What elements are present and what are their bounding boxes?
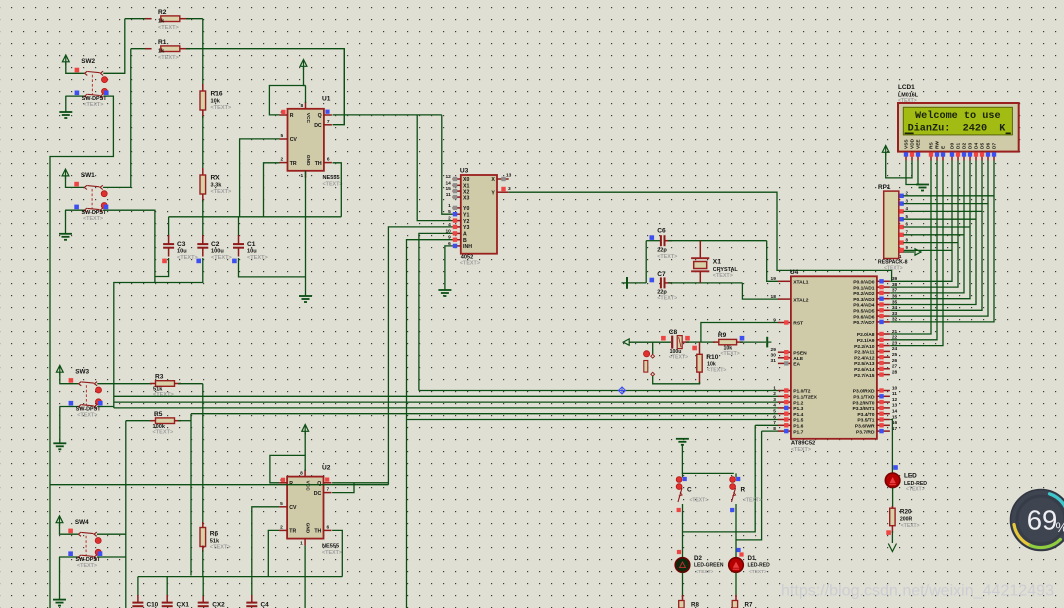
- svg-text:P3.0/RXD: P3.0/RXD: [853, 389, 875, 395]
- power terminal: [766, 337, 768, 348]
- svg-text:GND: GND: [305, 155, 311, 166]
- op-amp U1 (NE555 timer): [288, 109, 324, 171]
- svg-text:SW2: SW2: [81, 58, 95, 65]
- svg-text:C3: C3: [177, 241, 186, 248]
- node R1-DC: [333, 49, 345, 125]
- svg-text:Y3: Y3: [463, 225, 469, 231]
- U3 pin 4 Y3: [452, 226, 460, 228]
- svg-text:U2: U2: [322, 465, 331, 472]
- svg-text:R10: R10: [706, 354, 718, 361]
- svg-text:XTAL1: XTAL1: [793, 280, 808, 286]
- svg-text:LED: LED: [904, 473, 917, 480]
- U4 pin 27 P2.6/A14: [877, 368, 890, 370]
- svg-text:25: 25: [892, 352, 898, 358]
- svg-text:P1.7: P1.7: [793, 429, 803, 435]
- wire: [333, 114, 442, 116]
- RP1 pin 9: [899, 249, 904, 251]
- wire: [903, 226, 970, 228]
- U3 pin 5 Y1: [452, 213, 460, 215]
- svg-text:1k: 1k: [158, 19, 165, 25]
- svg-text:P0.4/AD4: P0.4/AD4: [853, 303, 874, 309]
- svg-text:P1.5: P1.5: [793, 418, 803, 424]
- U3 pin 14 X1: [452, 184, 460, 186]
- U4 pin 8 P1.7: [778, 430, 791, 432]
- svg-text:DC: DC: [314, 491, 322, 497]
- svg-text:INH: INH: [463, 244, 472, 250]
- resistor R20: [891, 506, 893, 510]
- svg-text:3: 3: [508, 186, 511, 192]
- svg-text:P0.0/AD0: P0.0/AD0: [853, 280, 874, 286]
- svg-text:1: 1: [773, 385, 776, 391]
- svg-text:<TEXT>: <TEXT>: [77, 563, 97, 569]
- wire D1: [890, 161, 958, 288]
- wire LCD ctl 1: [890, 161, 937, 340]
- svg-text:<TEXT>: <TEXT>: [906, 487, 925, 493]
- op-amp U2 (NE555 timer): [287, 477, 323, 539]
- svg-text:6: 6: [327, 524, 330, 530]
- resistor R7: [735, 595, 737, 601]
- power VDD: [882, 146, 889, 156]
- U4 pin 11 P3.1/TXD: [877, 395, 890, 397]
- svg-text:C2: C2: [211, 241, 220, 248]
- wire: [97, 533, 126, 535]
- svg-text:P3.4/T0: P3.4/T0: [857, 412, 874, 418]
- svg-text:30: 30: [771, 353, 777, 359]
- svg-text:VCC: VCC: [305, 113, 311, 124]
- svg-text:D2: D2: [962, 143, 968, 149]
- ground: [59, 557, 61, 600]
- wire: [114, 258, 203, 408]
- wire: [305, 171, 307, 296]
- svg-text:11: 11: [446, 192, 451, 198]
- svg-text:R: R: [741, 487, 746, 494]
- wire: [103, 49, 131, 188]
- wire: [735, 504, 737, 558]
- svg-text:P1.6: P1.6: [793, 424, 803, 430]
- svg-text:P0.2/AD2: P0.2/AD2: [853, 291, 874, 297]
- analog mux U3 (4052): [461, 175, 497, 254]
- capacitor C1: [238, 217, 240, 236]
- svg-text:NE555: NE555: [323, 175, 340, 181]
- svg-text:5: 5: [773, 409, 776, 415]
- svg-text:10: 10: [892, 385, 898, 391]
- wire: [304, 470, 306, 473]
- wire: [509, 192, 892, 281]
- svg-text:X3: X3: [463, 195, 469, 201]
- svg-text:P1.1/T2EX: P1.1/T2EX: [793, 395, 817, 401]
- svg-text:Y1: Y1: [463, 212, 469, 218]
- wire: [97, 406, 114, 408]
- U4 pin 1 P1.0/T2: [778, 390, 791, 392]
- svg-text:12: 12: [445, 174, 451, 180]
- svg-text:P2.2/A10: P2.2/A10: [854, 344, 875, 350]
- svg-text:P1.0/T2: P1.0/T2: [793, 389, 810, 395]
- svg-text:<TEXT>: <TEXT>: [791, 447, 811, 453]
- U4 pin 21 P2.0/A8: [877, 333, 890, 335]
- svg-text:10u: 10u: [177, 249, 187, 255]
- svg-text:C6: C6: [657, 228, 666, 235]
- svg-text:D7: D7: [992, 143, 998, 149]
- U4 pin 25 P2.4/A12: [877, 356, 890, 358]
- svg-text:D3: D3: [968, 143, 974, 149]
- svg-text:13: 13: [506, 173, 512, 179]
- svg-text:D5: D5: [980, 143, 986, 149]
- wire P1.7: [762, 430, 778, 432]
- svg-text:U1: U1: [322, 96, 331, 103]
- capacitor CX1: [166, 577, 168, 596]
- U4 pin 12 P3.2/INT0: [877, 401, 890, 403]
- wire P1.2: [114, 401, 778, 403]
- svg-text:<TEXT>: <TEXT>: [901, 523, 920, 529]
- wire D7: [890, 161, 994, 322]
- wire: [917, 161, 919, 185]
- svg-text:3: 3: [773, 397, 776, 403]
- svg-text:D0: D0: [950, 143, 956, 149]
- svg-text:P0.6/AD6: P0.6/AD6: [853, 314, 874, 320]
- svg-text:69: 69: [1027, 505, 1058, 536]
- U4 pin 16 P3.6/WR: [877, 424, 890, 426]
- U4 pin 14 P3.4/T0: [877, 413, 890, 415]
- svg-text:4052: 4052: [461, 254, 473, 260]
- svg-text:Q: Q: [317, 481, 321, 487]
- wire: [903, 210, 982, 212]
- svg-text:R20: R20: [900, 509, 912, 516]
- RP1 pin 4: [899, 210, 904, 212]
- RP1 pin 3: [899, 203, 904, 205]
- svg-text:1: 1: [300, 541, 303, 547]
- capacitor C8: [661, 336, 666, 341]
- switch SW4: [56, 516, 63, 526]
- svg-text:<TEXT>: <TEXT>: [657, 295, 677, 301]
- wire P1.0: [419, 390, 778, 392]
- wire: [305, 86, 307, 104]
- svg-text:RS: RS: [929, 142, 935, 149]
- svg-text:SW3: SW3: [75, 368, 89, 375]
- svg-text:12: 12: [892, 397, 898, 403]
- wire: [97, 421, 126, 557]
- svg-text:C8: C8: [669, 329, 678, 336]
- wire: [407, 240, 453, 608]
- svg-text:<TEXT>: <TEXT>: [153, 392, 175, 398]
- svg-text:CX1: CX1: [177, 602, 190, 608]
- svg-text:R7: R7: [745, 602, 753, 608]
- svg-text:8: 8: [301, 103, 304, 109]
- node junction: [618, 387, 625, 394]
- svg-text:R: R: [290, 113, 294, 119]
- svg-text:C: C: [687, 487, 692, 494]
- wire D0: [890, 161, 952, 282]
- resistor RX: [202, 168, 204, 176]
- svg-text:7: 7: [773, 420, 776, 426]
- svg-text:200R: 200R: [900, 517, 913, 523]
- button: [652, 342, 654, 354]
- LED D? (LED-RED): [893, 465, 898, 470]
- svg-text:P2.7/A15: P2.7/A15: [854, 373, 875, 379]
- wire: [332, 482, 388, 484]
- wire: [653, 376, 700, 384]
- U4 pin 18 XTAL2: [778, 298, 791, 300]
- svg-text:VEE: VEE: [916, 139, 922, 149]
- resistor R6: [202, 384, 204, 524]
- svg-text:Welcome to use: Welcome to use: [915, 110, 1001, 122]
- svg-text:https://blog.csdn.net/weixin_4: https://blog.csdn.net/weixin_44212493: [781, 583, 1054, 600]
- microcontroller U4 (AT89C52): [791, 276, 877, 439]
- wire: [903, 195, 994, 197]
- svg-text:R1: R1: [158, 39, 167, 46]
- svg-text:P1.4: P1.4: [793, 412, 803, 418]
- U4 pin 4 P1.3: [778, 407, 791, 409]
- svg-text:<TEXT>: <TEXT>: [898, 98, 917, 104]
- svg-text:<TEXT>: <TEXT>: [210, 545, 232, 551]
- switch R: [735, 473, 737, 477]
- svg-text:<TEXT>: <TEXT>: [884, 265, 903, 271]
- wire: [202, 19, 204, 86]
- svg-text:Y0: Y0: [463, 206, 469, 212]
- svg-text:<TEXT>: <TEXT>: [211, 105, 233, 111]
- svg-text:X1: X1: [713, 259, 721, 266]
- U3 pin 6 INH: [452, 245, 460, 247]
- wire: [240, 139, 280, 217]
- svg-text:<TEXT>: <TEXT>: [158, 55, 180, 61]
- U4 pin 26 P2.5/A13: [877, 362, 890, 364]
- wire: [252, 507, 279, 577]
- RP1 pin 2: [899, 195, 904, 197]
- svg-text:P3.2/INT0: P3.2/INT0: [852, 400, 874, 406]
- RP1 pin 6: [899, 226, 904, 228]
- U3 pin 12 X0: [452, 178, 460, 180]
- U4 pin 36 P0.3/AD3: [877, 298, 890, 300]
- svg-text:R9: R9: [718, 332, 727, 339]
- svg-text:15: 15: [445, 186, 451, 192]
- svg-text:4: 4: [773, 403, 776, 409]
- svg-text:<TEXT>: <TEXT>: [707, 368, 726, 374]
- svg-text:<TEXT>: <TEXT>: [721, 351, 740, 357]
- wire: [890, 420, 892, 474]
- svg-text:PSEN: PSEN: [793, 350, 807, 356]
- wire: [50, 484, 388, 486]
- U4 pin 32 P0.7/AD7: [877, 321, 890, 323]
- svg-text:A: A: [463, 232, 467, 238]
- wire: [682, 504, 684, 558]
- svg-text:22p: 22p: [657, 248, 667, 254]
- svg-text:EA: EA: [793, 362, 800, 368]
- capacitor C10: [137, 577, 139, 596]
- wire: [735, 572, 737, 597]
- svg-text:R: R: [289, 481, 293, 487]
- wire: [138, 576, 342, 578]
- svg-text:CX2: CX2: [212, 602, 225, 608]
- resistor R1: [131, 48, 152, 50]
- wire XTAL1: [767, 241, 778, 282]
- wire P1.5: [407, 419, 779, 421]
- svg-text:DC: DC: [314, 123, 322, 129]
- ground: [438, 290, 451, 296]
- resistor R16: [202, 84, 204, 92]
- wire: [332, 483, 354, 493]
- svg-text:<TEXT>: <TEXT>: [153, 429, 175, 435]
- resistor R3: [150, 383, 157, 385]
- svg-text:<TEXT>: <TEXT>: [323, 182, 343, 188]
- power VCC U2: [302, 425, 309, 435]
- capacitor C2: [202, 235, 204, 244]
- wire P1.1: [114, 395, 778, 397]
- svg-text:D4: D4: [974, 143, 980, 149]
- wire: [333, 163, 342, 217]
- svg-text:<TEXT>: <TEXT>: [77, 412, 97, 418]
- wire D5: [890, 161, 982, 311]
- svg-text:27: 27: [892, 364, 898, 370]
- U4 pin 15 P3.5/T1: [877, 419, 890, 421]
- U4 pin 22 P2.1/A9: [877, 339, 890, 341]
- resistor R5: [126, 420, 152, 422]
- svg-text:X0: X0: [463, 177, 469, 183]
- svg-text:P0.5/AD5: P0.5/AD5: [853, 309, 874, 315]
- ground arrow: [891, 531, 893, 543]
- wire: [388, 227, 452, 485]
- wire D4: [890, 161, 976, 305]
- switch SW2: [62, 55, 69, 65]
- wire node A: [169, 216, 342, 218]
- resistor R2: [125, 18, 152, 20]
- U4 pin 24 P2.3/A11: [877, 350, 890, 352]
- wire: [268, 530, 279, 576]
- svg-text:RST: RST: [793, 321, 803, 327]
- wire: [332, 530, 342, 576]
- svg-text:P1.3: P1.3: [793, 406, 803, 412]
- svg-text:P2.5/A13: P2.5/A13: [854, 361, 875, 367]
- capacitor C3: [168, 217, 170, 236]
- svg-text:<TEXT>: <TEXT>: [247, 255, 269, 261]
- svg-text:7: 7: [327, 487, 330, 493]
- svg-text:CRYSTAL: CRYSTAL: [713, 267, 739, 273]
- RP1 pin 1 common: [899, 251, 904, 253]
- wire D6: [890, 161, 988, 317]
- wire P1.6: [755, 424, 778, 426]
- svg-text:<TEXT>: <TEXT>: [460, 261, 480, 267]
- switch SW1: [62, 169, 69, 179]
- svg-text:CV: CV: [289, 505, 297, 511]
- svg-text:<TEXT>: <TEXT>: [657, 254, 677, 260]
- U4 pin 19 XTAL1: [778, 280, 791, 282]
- wire: [442, 115, 453, 214]
- wire: [103, 19, 125, 74]
- svg-text:3.3k: 3.3k: [211, 183, 223, 189]
- ground: [59, 407, 61, 444]
- wire P1.4: [191, 413, 778, 415]
- U4 pin 29 PSEN: [778, 351, 791, 353]
- capacitor C7: [650, 278, 655, 283]
- svg-text:SW1: SW1: [81, 172, 95, 179]
- svg-text:8: 8: [300, 471, 303, 477]
- svg-text:28: 28: [892, 369, 898, 375]
- U4 pin 37 P0.2/AD2: [877, 292, 890, 294]
- U4 pin 34 P0.5/AD5: [877, 309, 890, 311]
- U4 pin 17 P3.7/RD: [877, 430, 890, 432]
- U4 pin 13 P3.3/INT1: [877, 407, 890, 409]
- RP1 pin 5: [899, 218, 904, 220]
- svg-text:CV: CV: [290, 137, 298, 143]
- U4 pin 7 P1.6: [778, 424, 791, 426]
- svg-text:B: B: [463, 238, 467, 244]
- svg-text:10k: 10k: [211, 99, 221, 105]
- power terminal: [622, 282, 647, 284]
- svg-text:RW: RW: [935, 141, 941, 149]
- ground: [65, 96, 67, 112]
- wire: [239, 258, 306, 277]
- svg-text:X: X: [491, 177, 495, 183]
- ground: [65, 210, 67, 234]
- svg-text:C10: C10: [147, 602, 159, 608]
- svg-text:R8: R8: [691, 602, 699, 608]
- svg-text:1k: 1k: [158, 49, 165, 55]
- svg-text:<TEXT>: <TEXT>: [177, 255, 199, 261]
- svg-text:1: 1: [301, 173, 304, 179]
- svg-text:100u: 100u: [211, 249, 224, 255]
- svg-text:<TEXT>: <TEXT>: [211, 255, 233, 261]
- svg-text:14: 14: [892, 409, 898, 415]
- svg-text:D2: D2: [694, 555, 702, 562]
- switch C: [682, 473, 684, 477]
- LED D2 (LED-GREEN): [677, 550, 681, 554]
- svg-text:RX: RX: [211, 175, 221, 182]
- wire: [682, 572, 684, 597]
- wire P1.3: [114, 407, 778, 409]
- wire: [419, 233, 453, 390]
- svg-text:P3.1/TXD: P3.1/TXD: [853, 395, 875, 401]
- U4 pin 38 P0.1/AD1: [877, 286, 890, 288]
- wire D2: [890, 161, 964, 293]
- U3 pin 1 Y0: [452, 207, 460, 209]
- svg-text:U3: U3: [460, 168, 469, 175]
- svg-text:LED-GREEN: LED-GREEN: [694, 562, 724, 568]
- svg-text:11: 11: [892, 391, 897, 397]
- svg-text:P0.1/AD1: P0.1/AD1: [853, 285, 874, 291]
- U3 pin 11 X3: [452, 196, 460, 198]
- svg-text:SW4: SW4: [75, 519, 89, 526]
- wire: [202, 116, 204, 170]
- wire: [903, 234, 964, 236]
- svg-text:R5: R5: [154, 411, 163, 418]
- svg-text:LED-RED: LED-RED: [748, 562, 771, 568]
- svg-text:5: 5: [280, 501, 283, 507]
- svg-text:13: 13: [892, 403, 898, 409]
- U4 pin 6 P1.5: [778, 419, 791, 421]
- wire LCD ctl 2: [890, 161, 943, 346]
- U4 pin 33 P0.6/AD6: [877, 315, 890, 317]
- svg-text:VSS: VSS: [904, 139, 910, 149]
- wire: [202, 200, 204, 244]
- U4 pin 9 RST: [778, 322, 791, 324]
- svg-text:<TEXT>: <TEXT>: [83, 216, 103, 222]
- ground: [299, 296, 312, 302]
- svg-text:R16: R16: [211, 91, 223, 98]
- svg-text:6: 6: [773, 414, 776, 420]
- svg-text:P3.5/T1: P3.5/T1: [857, 418, 874, 424]
- svg-text:C1: C1: [247, 241, 256, 248]
- svg-text:D1: D1: [748, 555, 756, 562]
- svg-text:P0.7/AD7: P0.7/AD7: [853, 320, 874, 326]
- svg-text:GND: GND: [305, 523, 311, 534]
- resistor pack RP1 (RESPACK-8): [884, 191, 899, 258]
- svg-text:5: 5: [281, 133, 284, 139]
- svg-text:24: 24: [892, 346, 898, 352]
- U3 pin 3 Y: [497, 191, 509, 193]
- wire: [304, 546, 306, 608]
- svg-text:<TEXT>: <TEXT>: [669, 355, 688, 361]
- svg-text:10u: 10u: [247, 249, 257, 255]
- ground: [916, 185, 929, 191]
- svg-text:TH: TH: [315, 161, 322, 167]
